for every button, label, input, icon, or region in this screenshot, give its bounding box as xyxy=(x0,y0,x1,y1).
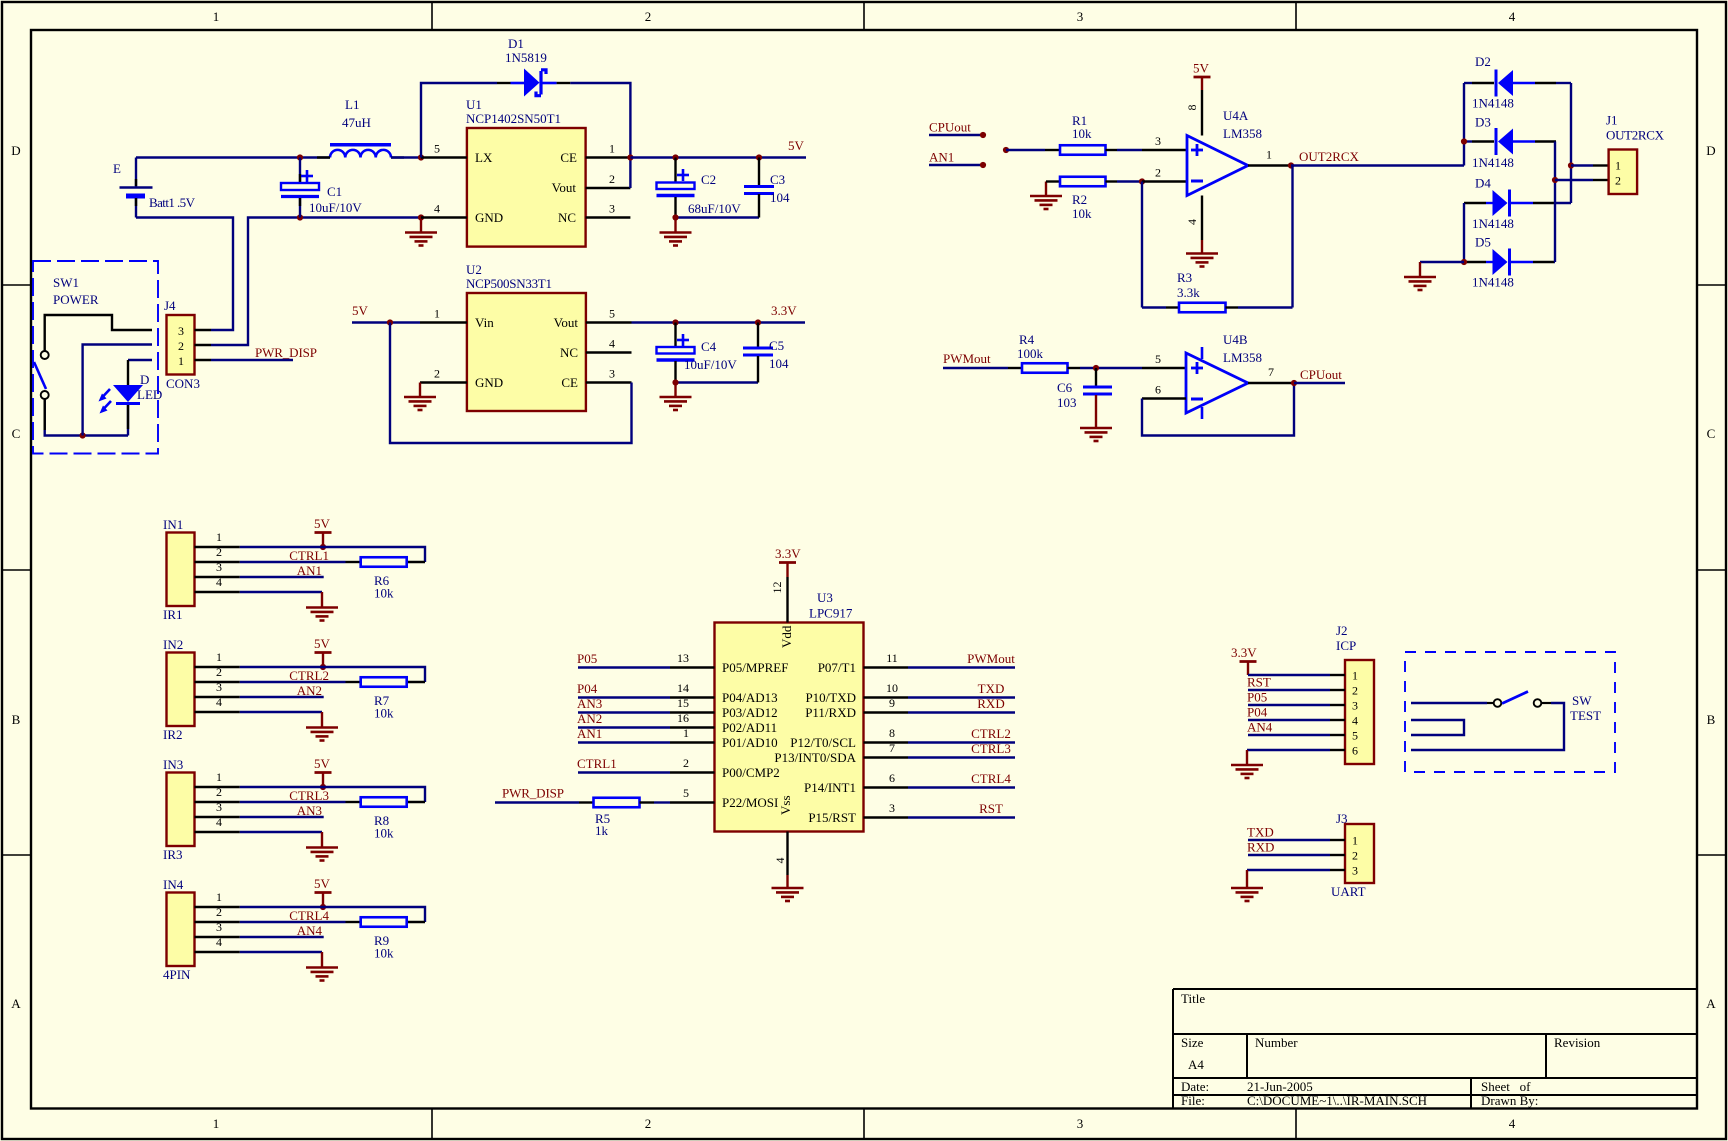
svg-text:P10/TXD: P10/TXD xyxy=(805,690,856,705)
svg-text:1: 1 xyxy=(216,890,222,904)
svg-text:1N4148: 1N4148 xyxy=(1472,96,1514,111)
svg-text:5: 5 xyxy=(434,142,440,156)
svg-text:TXD: TXD xyxy=(978,681,1005,696)
svg-text:3: 3 xyxy=(216,800,222,814)
svg-text:CTRL1: CTRL1 xyxy=(289,548,329,563)
svg-text:1: 1 xyxy=(216,650,222,664)
svg-text:3: 3 xyxy=(178,324,184,338)
svg-text:2: 2 xyxy=(645,9,652,24)
svg-text:5V: 5V xyxy=(314,636,331,651)
svg-text:1: 1 xyxy=(1352,834,1358,848)
svg-text:10k: 10k xyxy=(374,706,394,721)
svg-text:Drawn By:: Drawn By: xyxy=(1481,1093,1538,1108)
svg-text:C6: C6 xyxy=(1057,380,1073,395)
svg-text:J4: J4 xyxy=(164,298,176,313)
svg-text:2: 2 xyxy=(216,905,222,919)
svg-text:D: D xyxy=(140,372,149,387)
svg-text:1N4148: 1N4148 xyxy=(1472,275,1514,290)
svg-text:2: 2 xyxy=(683,756,689,770)
svg-text:LED: LED xyxy=(137,387,162,402)
svg-text:LPC917: LPC917 xyxy=(809,606,853,621)
svg-text:P03/AD12: P03/AD12 xyxy=(722,705,778,720)
svg-text:9: 9 xyxy=(889,696,895,710)
svg-text:8: 8 xyxy=(889,726,895,740)
svg-text:10k: 10k xyxy=(374,586,394,601)
svg-text:3: 3 xyxy=(1155,134,1161,148)
svg-text:D4: D4 xyxy=(1475,176,1491,191)
svg-text:5V: 5V xyxy=(788,138,805,153)
svg-text:1N4148: 1N4148 xyxy=(1472,155,1514,170)
svg-text:U4B: U4B xyxy=(1223,332,1248,347)
svg-text:2: 2 xyxy=(1155,166,1161,180)
svg-text:1: 1 xyxy=(1352,669,1358,683)
svg-text:P07/T1: P07/T1 xyxy=(818,660,856,675)
svg-text:C4: C4 xyxy=(701,339,717,354)
svg-text:GND: GND xyxy=(475,210,503,225)
svg-text:4: 4 xyxy=(434,202,440,216)
svg-text:A: A xyxy=(1706,996,1716,1011)
svg-text:4: 4 xyxy=(1509,1116,1516,1131)
svg-text:File:: File: xyxy=(1181,1093,1205,1108)
svg-text:NCP500SN33T1: NCP500SN33T1 xyxy=(466,276,552,291)
svg-text:A: A xyxy=(11,996,21,1011)
svg-text:1N5819: 1N5819 xyxy=(505,50,547,65)
svg-text:NC: NC xyxy=(560,345,578,360)
svg-text:D1: D1 xyxy=(508,36,524,51)
svg-text:AN4: AN4 xyxy=(297,923,323,938)
svg-text:UART: UART xyxy=(1331,884,1366,899)
svg-text:10uF/10V: 10uF/10V xyxy=(684,357,737,372)
svg-text:U1: U1 xyxy=(466,97,482,112)
svg-text:B: B xyxy=(1707,712,1716,727)
svg-text:C: C xyxy=(12,426,21,441)
svg-text:CON3: CON3 xyxy=(166,376,200,391)
svg-text:CPUout: CPUout xyxy=(929,120,971,135)
svg-text:D2: D2 xyxy=(1475,54,1491,69)
svg-text:ICP: ICP xyxy=(1336,638,1356,653)
svg-text:Size: Size xyxy=(1181,1035,1204,1050)
svg-text:D3: D3 xyxy=(1475,115,1491,130)
svg-text:Vout: Vout xyxy=(552,180,577,195)
svg-text:U2: U2 xyxy=(466,262,482,277)
svg-text:1: 1 xyxy=(683,726,689,740)
svg-text:NCP1402SN50T1: NCP1402SN50T1 xyxy=(466,111,561,126)
svg-text:U4A: U4A xyxy=(1223,108,1249,123)
svg-text:4: 4 xyxy=(216,575,222,589)
svg-text:4: 4 xyxy=(1352,714,1358,728)
svg-text:11: 11 xyxy=(886,651,898,665)
svg-text:LM358: LM358 xyxy=(1223,126,1262,141)
svg-text:5: 5 xyxy=(1352,729,1358,743)
svg-text:5: 5 xyxy=(609,307,615,321)
svg-text:14: 14 xyxy=(677,681,689,695)
svg-text:3: 3 xyxy=(609,202,615,216)
svg-text:Title: Title xyxy=(1181,991,1205,1006)
svg-text:L1: L1 xyxy=(345,97,359,112)
svg-text:1: 1 xyxy=(434,307,440,321)
svg-text:Sheet of: Sheet of xyxy=(1481,1079,1531,1094)
svg-text:P05: P05 xyxy=(577,651,597,666)
svg-text:1: 1 xyxy=(609,142,615,156)
svg-text:2: 2 xyxy=(645,1116,652,1131)
svg-text:10k: 10k xyxy=(1072,206,1092,221)
svg-text:1: 1 xyxy=(216,770,222,784)
svg-text:3: 3 xyxy=(216,920,222,934)
svg-text:4: 4 xyxy=(216,935,222,949)
svg-text:10k: 10k xyxy=(374,946,394,961)
svg-text:7: 7 xyxy=(1268,365,1274,379)
svg-text:CTRL4: CTRL4 xyxy=(289,908,329,923)
svg-text:16: 16 xyxy=(677,711,689,725)
svg-text:P01/AD10: P01/AD10 xyxy=(722,735,778,750)
svg-text:1: 1 xyxy=(1266,148,1272,162)
svg-text:IR1: IR1 xyxy=(163,607,183,622)
svg-text:5V: 5V xyxy=(314,756,331,771)
svg-text:CE: CE xyxy=(561,375,578,390)
svg-text:D5: D5 xyxy=(1475,235,1491,250)
svg-text:R2: R2 xyxy=(1072,192,1087,207)
svg-text:8: 8 xyxy=(1185,105,1199,111)
svg-text:5V: 5V xyxy=(314,876,331,891)
svg-text:4: 4 xyxy=(773,858,787,864)
svg-text:R3: R3 xyxy=(1177,270,1192,285)
svg-text:1: 1 xyxy=(213,9,220,24)
svg-text:AN1: AN1 xyxy=(929,150,954,165)
svg-text:CTRL1: CTRL1 xyxy=(577,756,617,771)
svg-text:IN4: IN4 xyxy=(163,877,184,892)
svg-text:CTRL2: CTRL2 xyxy=(971,726,1011,741)
svg-text:13: 13 xyxy=(677,651,689,665)
svg-text:RST: RST xyxy=(979,801,1003,816)
svg-text:P02/AD11: P02/AD11 xyxy=(722,720,777,735)
svg-text:15: 15 xyxy=(677,696,689,710)
svg-text:4: 4 xyxy=(216,695,222,709)
svg-text:TEST: TEST xyxy=(1570,708,1601,723)
svg-text:GND: GND xyxy=(475,375,503,390)
svg-text:5: 5 xyxy=(683,786,689,800)
svg-text:2: 2 xyxy=(1352,684,1358,698)
svg-text:4: 4 xyxy=(609,337,615,351)
svg-text:P22/MOSI: P22/MOSI xyxy=(722,795,778,810)
svg-text:12: 12 xyxy=(770,582,784,594)
svg-text:LX: LX xyxy=(475,150,493,165)
svg-text:OUT2RCX: OUT2RCX xyxy=(1299,149,1360,164)
svg-text:6: 6 xyxy=(889,771,895,785)
svg-text:10uF/10V: 10uF/10V xyxy=(309,200,362,215)
svg-text:AN3: AN3 xyxy=(577,696,602,711)
svg-text:103: 103 xyxy=(1057,395,1077,410)
svg-text:5: 5 xyxy=(1155,352,1161,366)
svg-text:D: D xyxy=(11,143,20,158)
svg-text:5V: 5V xyxy=(1193,61,1210,76)
svg-text:AN2: AN2 xyxy=(297,683,322,698)
svg-text:5V: 5V xyxy=(352,303,369,318)
svg-text:D: D xyxy=(1706,143,1715,158)
svg-text:PWMout: PWMout xyxy=(967,651,1015,666)
svg-text:68uF/10V: 68uF/10V xyxy=(688,201,741,216)
svg-text:A4: A4 xyxy=(1188,1057,1204,1072)
svg-text:47uH: 47uH xyxy=(342,115,371,130)
svg-text:IN1: IN1 xyxy=(163,517,183,532)
svg-text:2: 2 xyxy=(216,545,222,559)
svg-text:2: 2 xyxy=(216,665,222,679)
svg-text:Vin: Vin xyxy=(475,315,494,330)
svg-text:P05: P05 xyxy=(1247,690,1267,705)
svg-text:NC: NC xyxy=(558,210,576,225)
svg-text:2: 2 xyxy=(609,172,615,186)
svg-text:Vss: Vss xyxy=(778,795,793,815)
svg-text:Date:: Date: xyxy=(1181,1079,1209,1094)
svg-text:P05/MPREF: P05/MPREF xyxy=(722,660,788,675)
svg-text:3: 3 xyxy=(889,801,895,815)
svg-text:1: 1 xyxy=(178,354,184,368)
svg-text:AN3: AN3 xyxy=(297,803,322,818)
svg-text:CPUout: CPUout xyxy=(1300,367,1342,382)
svg-text:IR3: IR3 xyxy=(163,847,183,862)
svg-text:C:\DOCUME~1\..\IR-MAIN.SCH: C:\DOCUME~1\..\IR-MAIN.SCH xyxy=(1247,1093,1427,1108)
svg-text:Revision: Revision xyxy=(1554,1035,1601,1050)
svg-text:AN1: AN1 xyxy=(297,563,322,578)
svg-text:2: 2 xyxy=(1615,174,1621,188)
svg-text:3.3V: 3.3V xyxy=(775,546,801,561)
svg-text:1: 1 xyxy=(213,1116,220,1131)
svg-text:Vdd: Vdd xyxy=(779,625,794,648)
svg-text:1k: 1k xyxy=(595,823,609,838)
svg-text:4PIN: 4PIN xyxy=(163,967,191,982)
svg-text:SW1: SW1 xyxy=(53,275,79,290)
svg-text:3: 3 xyxy=(216,560,222,574)
svg-text:10k: 10k xyxy=(374,826,394,841)
svg-text:LM358: LM358 xyxy=(1223,350,1262,365)
svg-text:4: 4 xyxy=(1509,9,1516,24)
svg-text:IN3: IN3 xyxy=(163,757,183,772)
svg-text:2: 2 xyxy=(434,367,440,381)
svg-text:Batt1 .5V: Batt1 .5V xyxy=(149,195,196,210)
svg-text:CE: CE xyxy=(560,150,577,165)
svg-text:C: C xyxy=(1707,426,1716,441)
svg-text:P13/INT0/SDA: P13/INT0/SDA xyxy=(774,750,856,765)
svg-text:3: 3 xyxy=(1352,699,1358,713)
svg-text:Vout: Vout xyxy=(554,315,579,330)
svg-text:RST: RST xyxy=(1247,675,1271,690)
svg-text:2: 2 xyxy=(216,785,222,799)
svg-text:POWER: POWER xyxy=(53,292,99,307)
svg-text:7: 7 xyxy=(889,741,895,755)
svg-text:PWR_DISP: PWR_DISP xyxy=(502,786,564,801)
svg-text:P04: P04 xyxy=(577,681,598,696)
svg-text:3.3V: 3.3V xyxy=(1231,645,1257,660)
svg-text:CTRL4: CTRL4 xyxy=(971,771,1011,786)
svg-text:104: 104 xyxy=(769,356,789,371)
svg-text:2: 2 xyxy=(178,339,184,353)
svg-text:CTRL2: CTRL2 xyxy=(289,668,329,683)
svg-text:4: 4 xyxy=(1185,219,1199,225)
svg-text:CTRL3: CTRL3 xyxy=(971,741,1011,756)
svg-text:E: E xyxy=(113,161,121,176)
svg-text:3.3k: 3.3k xyxy=(1177,285,1200,300)
svg-text:5V: 5V xyxy=(314,516,331,531)
svg-text:R4: R4 xyxy=(1019,332,1035,347)
svg-text:P04/AD13: P04/AD13 xyxy=(722,690,778,705)
svg-text:3: 3 xyxy=(609,367,615,381)
svg-text:6: 6 xyxy=(1155,383,1161,397)
svg-text:RXD: RXD xyxy=(977,696,1004,711)
svg-text:P04: P04 xyxy=(1247,705,1268,720)
svg-text:AN2: AN2 xyxy=(577,711,602,726)
svg-text:4: 4 xyxy=(216,815,222,829)
svg-text:3: 3 xyxy=(1077,1116,1084,1131)
svg-text:P11/RXD: P11/RXD xyxy=(805,705,856,720)
svg-text:OUT2RCX: OUT2RCX xyxy=(1606,128,1665,143)
svg-text:10: 10 xyxy=(886,681,898,695)
svg-text:1: 1 xyxy=(216,530,222,544)
svg-text:104: 104 xyxy=(770,190,790,205)
svg-text:J2: J2 xyxy=(1336,623,1348,638)
svg-text:IN2: IN2 xyxy=(163,637,183,652)
svg-text:1N4148: 1N4148 xyxy=(1472,216,1514,231)
svg-text:3: 3 xyxy=(1352,864,1358,878)
svg-text:3: 3 xyxy=(216,680,222,694)
svg-text:PWR_DISP: PWR_DISP xyxy=(255,345,317,360)
svg-text:RXD: RXD xyxy=(1247,840,1274,855)
svg-text:CTRL3: CTRL3 xyxy=(289,788,329,803)
svg-text:PWMout: PWMout xyxy=(943,351,991,366)
svg-text:C1: C1 xyxy=(327,184,342,199)
svg-text:B: B xyxy=(12,712,21,727)
svg-text:TXD: TXD xyxy=(1247,825,1274,840)
svg-text:100k: 100k xyxy=(1017,346,1044,361)
svg-text:10k: 10k xyxy=(1072,126,1092,141)
svg-text:3.3V: 3.3V xyxy=(771,303,797,318)
svg-text:Number: Number xyxy=(1255,1035,1298,1050)
svg-text:IR2: IR2 xyxy=(163,727,183,742)
svg-text:21-Jun-2005: 21-Jun-2005 xyxy=(1247,1079,1313,1094)
svg-text:C5: C5 xyxy=(769,338,784,353)
svg-text:AN4: AN4 xyxy=(1247,720,1273,735)
svg-text:AN1: AN1 xyxy=(577,726,602,741)
svg-text:P15/RST: P15/RST xyxy=(808,810,856,825)
svg-text:C2: C2 xyxy=(701,172,716,187)
svg-text:U3: U3 xyxy=(817,590,833,605)
svg-text:3: 3 xyxy=(1077,9,1084,24)
svg-text:2: 2 xyxy=(1352,849,1358,863)
svg-text:SW: SW xyxy=(1572,693,1592,708)
svg-text:P14/INT1: P14/INT1 xyxy=(804,780,856,795)
svg-text:P00/CMP2: P00/CMP2 xyxy=(722,765,780,780)
svg-text:C3: C3 xyxy=(770,172,785,187)
svg-text:1: 1 xyxy=(1615,159,1621,173)
svg-text:P12/T0/SCL: P12/T0/SCL xyxy=(790,735,856,750)
svg-text:6: 6 xyxy=(1352,744,1358,758)
svg-text:J1: J1 xyxy=(1606,113,1618,128)
